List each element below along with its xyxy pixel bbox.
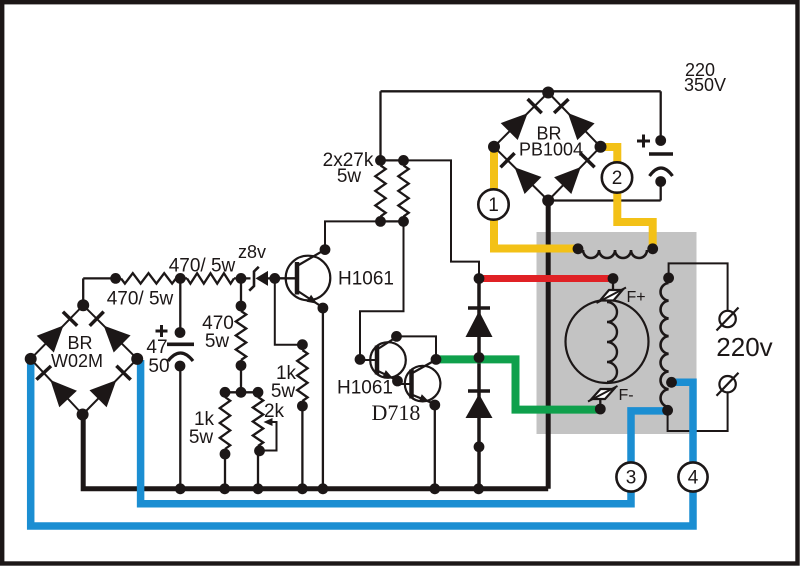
svg-text:5w: 5w: [189, 427, 214, 448]
svg-text:4: 4: [688, 468, 699, 489]
svg-text:H1061: H1061: [338, 269, 394, 290]
svg-text:W02M: W02M: [51, 351, 103, 371]
svg-text:5w: 5w: [271, 381, 296, 402]
svg-text:3: 3: [626, 468, 637, 489]
svg-text:BR: BR: [67, 333, 92, 353]
svg-text:2: 2: [612, 168, 623, 189]
svg-text:F+: F+: [626, 289, 645, 306]
svg-text:1: 1: [488, 195, 499, 216]
svg-text:220v: 220v: [716, 332, 772, 362]
svg-text:50: 50: [148, 356, 169, 377]
svg-text:D718: D718: [372, 400, 421, 425]
svg-text:2k: 2k: [264, 401, 285, 422]
svg-text:z8v: z8v: [238, 242, 266, 262]
svg-text:PB1004: PB1004: [519, 140, 583, 160]
svg-text:350V: 350V: [684, 75, 726, 95]
svg-text:5w: 5w: [337, 166, 362, 187]
svg-text:470/ 5w: 470/ 5w: [169, 256, 236, 277]
svg-text:5w: 5w: [205, 331, 230, 352]
svg-text:470/ 5w: 470/ 5w: [107, 289, 174, 310]
svg-text:H1061: H1061: [337, 378, 393, 399]
svg-text:47: 47: [146, 337, 167, 358]
svg-text:F-: F-: [618, 387, 633, 404]
